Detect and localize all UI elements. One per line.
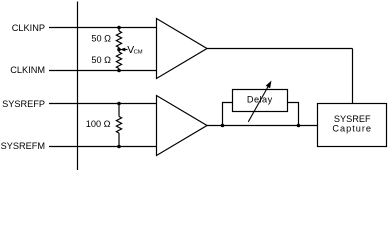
junction dot VCM node	[117, 48, 121, 52]
svg-text:50 Ω: 50 Ω	[91, 34, 111, 44]
wire CLKINM input	[49, 70, 157, 72]
svg-text:CLKINM: CLKINM	[10, 65, 45, 75]
variable delay arrow	[248, 81, 271, 122]
svg-text:100 Ω: 100 Ω	[86, 119, 111, 129]
svg-text:Delay: Delay	[247, 95, 273, 105]
resistor R2 50 ohm (VCM to CLKINM)	[116, 50, 121, 71]
svg-text:SYSREF: SYSREF	[334, 114, 371, 124]
junction dot CLKINP/R1	[117, 26, 121, 30]
wire device boundary vertical line	[77, 2, 79, 171]
svg-text:CLKINP: CLKINP	[12, 23, 45, 33]
junction dot bypass right	[297, 124, 301, 128]
resistor R3 100 ohm (SYSREFP to SYSREFM)	[116, 104, 121, 147]
svg-text:Capture: Capture	[332, 124, 372, 134]
svg-text:50 Ω: 50 Ω	[91, 55, 111, 65]
block SYSREF Capture	[318, 104, 387, 147]
resistor R1 50 ohm (CLKINP to VCM)	[116, 28, 121, 50]
wire corner down to SYSREF Capture top	[352, 49, 354, 104]
junction dot CLKINM/R2	[117, 69, 121, 73]
junction dot SYSREFM/R3	[117, 145, 121, 149]
op-amp buffer U1 (CLKIN receiver)	[157, 19, 208, 79]
wire SYSREFM input	[49, 146, 157, 148]
block Delay	[233, 90, 288, 112]
junction dot SYSREFP/R3	[117, 102, 121, 106]
label VCM	[127, 45, 143, 56]
wire U1 output to corner	[207, 48, 353, 50]
label SYSREF Capture	[332, 114, 372, 134]
svg-text:SYSREFM: SYSREFM	[1, 141, 45, 151]
svg-text:CM: CM	[134, 49, 143, 55]
wire SYSREFP input	[49, 103, 157, 105]
wire delay bypass right stub	[288, 103, 299, 126]
op-amp buffer U2 (SYSREF receiver)	[157, 96, 208, 156]
wire U2 output to SYSREF Capture	[207, 125, 318, 127]
wire delay bypass left stub	[223, 103, 233, 126]
svg-text:SYSREFP: SYSREFP	[2, 99, 45, 109]
junction dot bypass left	[221, 124, 225, 128]
VCM arrow pointing to node	[120, 48, 128, 52]
wire CLKINP input	[49, 27, 157, 29]
